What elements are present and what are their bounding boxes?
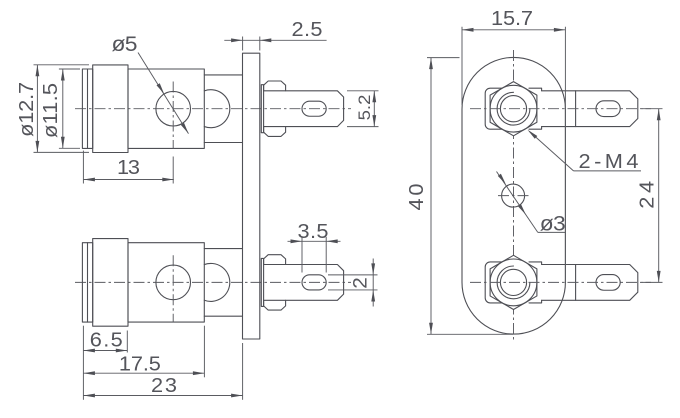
left view bottom post: threaded neck: [204, 249, 242, 317]
left view bottom post: cap (insulator end): [82, 243, 92, 322]
svg-text:2-M4: 2-M4: [579, 151, 639, 173]
svg-text:6.5: 6.5: [90, 329, 123, 351]
dimension 23: [83, 343, 242, 400]
right view top bolt: lug crimp step: [529, 88, 542, 129]
left view top post: hole vertical centerline: [172, 82, 174, 149]
svg-text:ø3: ø3: [540, 211, 566, 235]
dimension 2-M4 leader: [526, 128, 641, 172]
right view: center hole o3: [498, 184, 530, 207]
svg-text:17.5: 17.5: [119, 353, 161, 375]
left view top post: insulating washer strip: [261, 85, 263, 133]
dimension o5 leader: [112, 32, 191, 135]
dimension 2.5: [224, 19, 326, 51]
right view top bolt: horizontal centerline: [470, 108, 651, 110]
left view top post: body o11.5: [128, 69, 204, 148]
left view top post: cap (insulator end): [82, 69, 92, 148]
right view bottom bolt: thread arc M4: [497, 266, 530, 299]
right view top bolt: lug bend line: [575, 91, 577, 127]
dimension 6.5: [83, 326, 127, 400]
left view top post: solder lug: [264, 91, 344, 127]
left view bottom post: hole vertical centerline: [172, 255, 174, 322]
left view top post: cross hole o5: [156, 91, 191, 126]
svg-text:13: 13: [117, 157, 140, 179]
right view top bolt: nut inscribed circle: [490, 85, 537, 132]
dimension o11.5: [40, 69, 80, 148]
right view top bolt: thread arc M4: [497, 92, 530, 125]
left view top post: hex nut upper ear: [264, 81, 286, 91]
right view top bolt: square washer: [485, 88, 526, 129]
left view bottom post: horizontal centerline: [75, 281, 351, 283]
dimension 3.5: [288, 221, 341, 273]
right view top bolt: lug slot: [596, 101, 620, 117]
left view bottom post: solder lug: [264, 265, 344, 301]
dimension 24: [636, 109, 662, 283]
left view bottom post: lug slot: [302, 275, 326, 290]
dimension 5.2: [347, 91, 379, 127]
left view top post: spherical transition arc: [204, 90, 230, 128]
dimension 17.5: [83, 326, 204, 378]
mounting panel (2.5 thick): [243, 53, 260, 339]
right view top bolt: solder lug: [542, 91, 638, 127]
left view bottom post: hex nut upper ear: [264, 255, 286, 265]
right view bottom bolt: lug slot: [596, 275, 620, 291]
left view bottom post: collar ring o12.7: [93, 239, 128, 327]
left view top post: collar ring o12.7: [93, 65, 128, 153]
right view top bolt: hex nut: [490, 82, 537, 136]
right view bottom bolt: square washer: [485, 262, 526, 303]
right view bottom bolt: hex nut: [490, 255, 537, 309]
left view bottom post: insulating washer strip: [261, 258, 263, 306]
right view bottom bolt: solder lug: [542, 265, 638, 301]
right view bottom bolt: lug crimp step: [529, 262, 542, 303]
right view: stadium plate outline: [462, 57, 565, 334]
left view bottom post: hex nut lower ear: [264, 300, 286, 310]
svg-text:3.5: 3.5: [297, 221, 328, 243]
svg-text:15.7: 15.7: [491, 8, 533, 30]
left view top post: hex nut lower ear: [264, 127, 286, 137]
left view bottom post: cross hole o5: [156, 265, 191, 300]
svg-text:5.2: 5.2: [355, 95, 374, 121]
dimension o3 leader: [497, 172, 566, 236]
left view top post: threaded neck: [204, 75, 242, 143]
right view: plate vertical centerline: [513, 50, 515, 342]
dimension 2: [328, 259, 378, 307]
svg-text:2.5: 2.5: [291, 19, 322, 41]
right view bottom bolt: horizontal centerline: [470, 281, 651, 283]
svg-text:23: 23: [151, 375, 177, 397]
left view top post: lug slot: [302, 101, 326, 116]
left view bottom post: spherical transition arc: [204, 263, 230, 301]
dimension o12.7: [16, 65, 89, 153]
right view bottom bolt: nut inscribed circle: [490, 259, 537, 306]
svg-text:ø5: ø5: [112, 32, 138, 56]
right view bottom bolt: bolt circle: [500, 269, 526, 295]
dimension 15.7: [462, 8, 565, 283]
svg-text:ø11.5: ø11.5: [40, 83, 62, 138]
right view top bolt: bolt circle: [500, 96, 526, 122]
svg-text:2: 2: [350, 277, 371, 289]
right view bottom bolt: lug bend line: [575, 265, 577, 301]
dimension 40: [406, 58, 513, 335]
svg-text:ø12.7: ø12.7: [16, 82, 38, 137]
left view bottom post: body o11.5: [128, 243, 204, 322]
dimension 13: [83, 151, 173, 184]
left view top post: horizontal centerline: [75, 108, 351, 110]
